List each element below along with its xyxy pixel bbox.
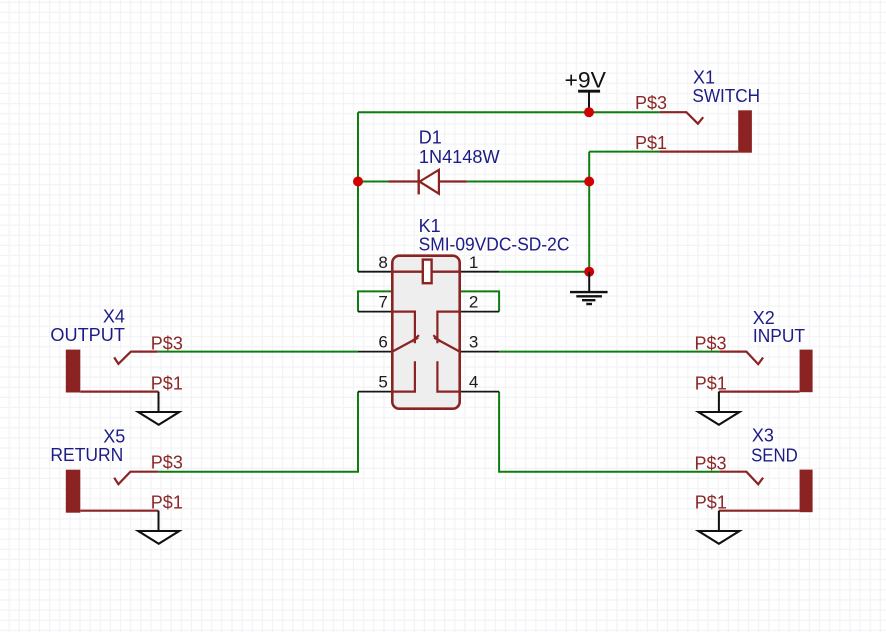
svg-text:P$1: P$1 — [695, 493, 727, 513]
wire K1 pin 1 to ground node — [499, 271, 589, 273]
pin line K1 pin 7 — [358, 311, 392, 313]
pin line K1 pin 1 — [460, 271, 499, 273]
pin line K1 pin 3 — [460, 351, 499, 353]
svg-text:P$1: P$1 — [151, 493, 183, 513]
ground X3 — [698, 511, 739, 544]
ground X4 — [138, 392, 179, 425]
wire K1 pin 5 to X5 P$3 — [158, 392, 358, 472]
svg-text:RETURN: RETURN — [50, 445, 123, 465]
wire net +9V row A horizontal — [358, 111, 660, 113]
svg-text:P$3: P$3 — [695, 333, 727, 353]
svg-text:+9V: +9V — [565, 68, 607, 93]
wire right vertical x589 (row B to diode cathode to pin 1 / ground) — [588, 152, 590, 272]
wire X1 P$1 row B horizontal — [589, 151, 659, 153]
svg-text:3: 3 — [469, 333, 478, 352]
wire K1 pin 7 to pin 2 loop — [358, 291, 499, 311]
svg-text:4: 4 — [469, 373, 478, 392]
svg-text:5: 5 — [378, 373, 387, 392]
wire X4 P$3 to K1 pin 6 — [158, 351, 358, 353]
svg-text:K1: K1 — [419, 216, 441, 236]
coil K1 — [392, 271, 459, 273]
junction node diode anode — [353, 177, 363, 187]
svg-text:P$3: P$3 — [151, 453, 183, 473]
svg-text:SMI-09VDC-SD-2C: SMI-09VDC-SD-2C — [419, 234, 570, 254]
ground X2 — [698, 392, 739, 425]
svg-text:OUTPUT: OUTPUT — [50, 325, 125, 345]
wire K1 pin 4 to X3 P$3 — [499, 392, 719, 472]
svg-text:P$3: P$3 — [695, 454, 727, 474]
svg-text:D1: D1 — [419, 128, 442, 148]
svg-text:1: 1 — [469, 253, 478, 272]
wire diode anode stub — [358, 181, 389, 183]
ground X5 — [138, 511, 179, 544]
svg-text:INPUT: INPUT — [753, 326, 805, 346]
relay K1 body — [392, 256, 459, 409]
ground earth symbol (center) — [570, 272, 608, 304]
svg-text:SEND: SEND — [751, 446, 798, 466]
contact pole right — [437, 312, 459, 344]
supply +9V — [565, 68, 607, 113]
pin line K1 pin 5 — [358, 391, 392, 393]
connector X2 jack — [719, 350, 813, 393]
svg-text:1N4148W: 1N4148W — [419, 147, 500, 167]
pin line K1 pin 2 — [460, 311, 499, 313]
connector X4 jack — [66, 350, 159, 393]
junction node diode cathode — [584, 177, 594, 187]
svg-text:6: 6 — [378, 333, 387, 352]
svg-text:SWITCH: SWITCH — [692, 86, 760, 106]
pin line K1 pin 8 — [358, 271, 392, 273]
svg-text:P$1: P$1 — [695, 374, 727, 394]
svg-text:8: 8 — [378, 253, 387, 272]
pin line K1 pin 6 — [358, 351, 392, 353]
junction node +9V — [584, 107, 594, 117]
connector X5 jack — [66, 470, 159, 513]
junction node ground / pin1 — [584, 267, 594, 277]
svg-text:P$3: P$3 — [151, 333, 183, 353]
svg-text:P$1: P$1 — [151, 374, 183, 394]
wire left bus vertical (+9V to diode anode to K1 pin 8) — [357, 112, 359, 272]
svg-text:X4: X4 — [103, 307, 125, 327]
svg-text:2: 2 — [469, 293, 478, 312]
pin line K1 pin 4 — [460, 391, 499, 393]
svg-text:X3: X3 — [752, 425, 774, 445]
contact pole left — [392, 312, 415, 344]
svg-text:P$1: P$1 — [635, 133, 667, 153]
diode D1 — [389, 169, 467, 194]
connector X3 jack — [719, 470, 813, 513]
svg-text:X1: X1 — [693, 68, 715, 88]
wire diode cathode stub — [467, 181, 589, 183]
wire K1 pin 3 to X2 P$3 — [499, 351, 719, 353]
svg-text:7: 7 — [378, 293, 387, 312]
svg-text:X5: X5 — [103, 427, 125, 447]
svg-text:P$3: P$3 — [635, 93, 667, 113]
connector X1 jack — [659, 110, 752, 152]
